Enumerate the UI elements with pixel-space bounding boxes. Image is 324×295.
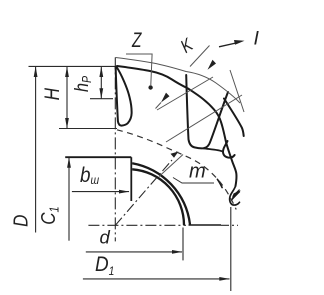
svg-text:m: m xyxy=(189,161,206,183)
svg-text:I: I xyxy=(254,28,260,50)
svg-text:H: H xyxy=(40,87,64,100)
svg-text:D: D xyxy=(9,215,32,227)
svg-text:d: d xyxy=(100,227,111,248)
svg-text:Z: Z xyxy=(131,28,142,52)
